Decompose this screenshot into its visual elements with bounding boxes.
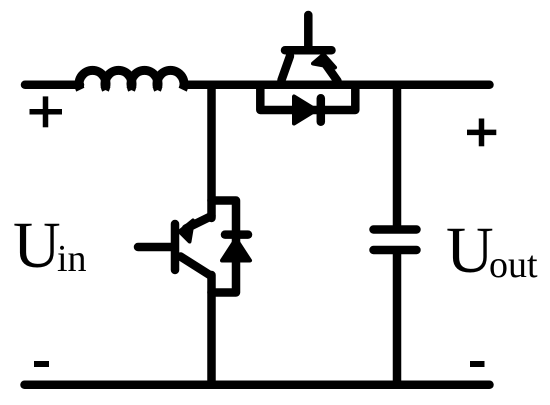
wire middle diode loop (212, 201, 237, 293)
wire middle branch lower (207, 275, 216, 385)
wire right branch lower (393, 254, 402, 385)
wire top diode loop (260, 85, 355, 110)
wire bottom rail (25, 380, 490, 389)
capacitor C1 (374, 230, 417, 251)
wire top rail left segment (25, 80, 80, 89)
wire middle branch upper (207, 85, 216, 218)
plus sign input (30, 96, 63, 127)
svg-text:U: U (13, 209, 61, 282)
minus sign input (34, 361, 49, 367)
diode D2 (222, 235, 250, 261)
svg-text:out: out (489, 244, 538, 286)
label Uin (13, 209, 87, 282)
svg-text:U: U (446, 214, 494, 287)
diode D1 (294, 97, 321, 124)
label Uout (446, 214, 538, 287)
plus sign output (467, 119, 496, 147)
wire top rail right segment (186, 80, 490, 89)
wire right branch upper (393, 85, 402, 225)
minus sign output (470, 361, 485, 367)
svg-text:in: in (57, 238, 87, 280)
inductor L1 (79, 70, 184, 89)
IGBT Q1 (282, 15, 338, 81)
IGBT Q2 (138, 216, 212, 276)
